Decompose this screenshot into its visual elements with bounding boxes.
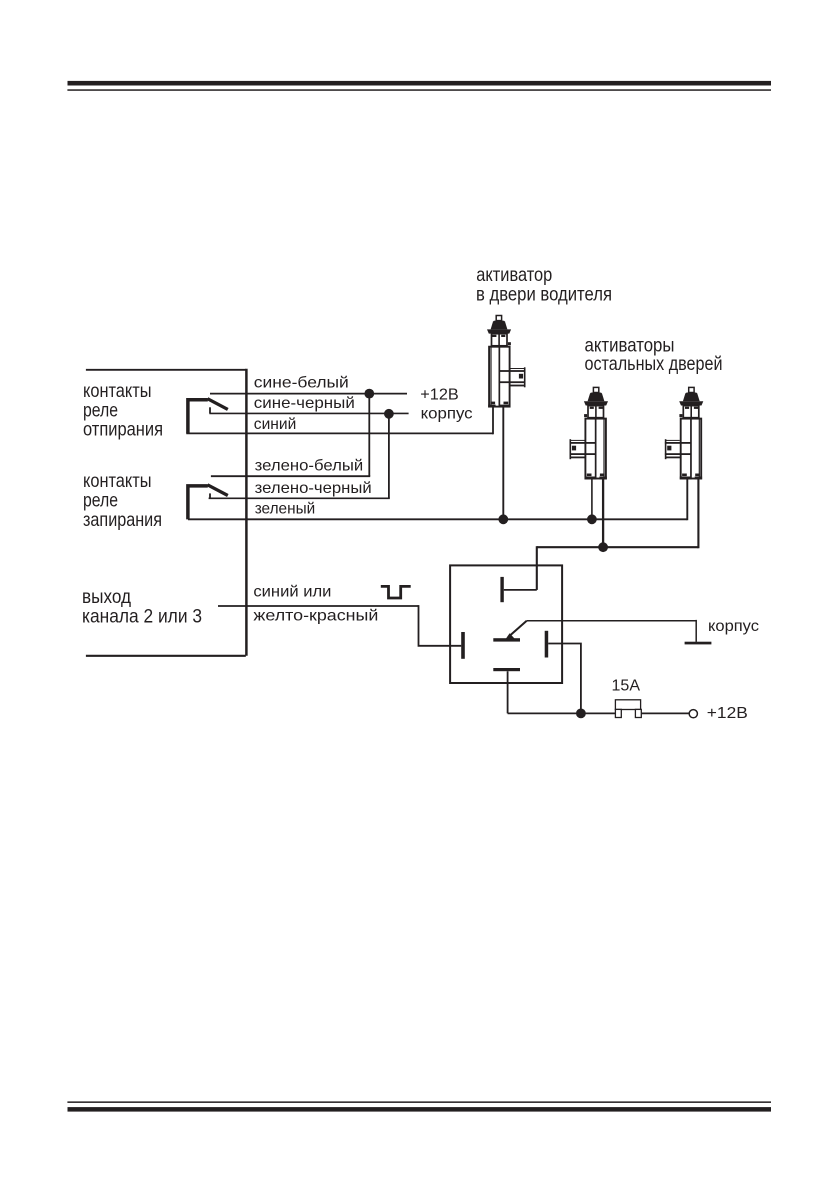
wire bottom pin to fuse line [508, 671, 616, 713]
relay bottom contact bar [493, 668, 520, 671]
middle actuator (mirrored) [570, 387, 609, 479]
svg-text:+12В: +12В [420, 386, 459, 403]
svg-text:сине-белый: сине-белый [254, 374, 349, 391]
wire зеленый bus [188, 518, 687, 520]
driver door actuator [487, 316, 526, 408]
wire driver actuator right terminal [502, 407, 504, 519]
lower bus wire [537, 546, 699, 548]
wire синий [186, 432, 493, 434]
+12V terminal circle [689, 710, 697, 718]
relay movable blade [509, 621, 527, 637]
relay pin 85 plate (left) [461, 632, 465, 659]
svg-text:+12В: +12В [707, 705, 748, 722]
wire синий riser to driver actuator [492, 407, 494, 434]
wire сине-белый [210, 393, 407, 395]
svg-text:корпус: корпус [708, 618, 759, 635]
svg-text:синий или: синий или [253, 584, 331, 601]
wire vertical to зелено-черный [388, 414, 390, 499]
channel output wire синий или желто-красный [218, 605, 419, 607]
svg-text:канала 2 или 3: канала 2 или 3 [82, 605, 202, 627]
drop into relay box top pin [536, 546, 538, 590]
node dot корпус join [384, 409, 394, 419]
page bottom double rule [67, 1101, 771, 1103]
relay pin 30 plate (top) [500, 577, 503, 602]
negative pulse symbol [381, 586, 411, 598]
wire vertical to зелено-белый [368, 394, 370, 477]
svg-text:сине-черный: сине-черный [254, 395, 355, 412]
riser right actuator right terminal [697, 480, 699, 549]
node dot fuse line [576, 709, 586, 719]
wire middle actuator right terminal [602, 480, 604, 548]
wire middle actuator left terminal [591, 480, 593, 520]
svg-text:зелено-белый: зелено-белый [255, 458, 364, 475]
relay pin 86 plate (right) [545, 631, 549, 658]
right actuator (mirrored) [665, 387, 704, 479]
svg-text:15А: 15А [612, 678, 641, 695]
wire сине-черный [209, 412, 408, 414]
svg-text:корпус: корпус [421, 406, 473, 423]
ground bar корпус [685, 642, 712, 645]
svg-text:зеленый: зеленый [255, 501, 316, 518]
wire blade common to ground [527, 620, 697, 642]
svg-text:в двери водителя: в двери водителя [476, 284, 612, 306]
node dot driver/зеленый [498, 514, 508, 524]
wire зелено-белый [211, 475, 370, 477]
relay contact K1 (unlock) [188, 400, 208, 434]
alarm unit box (open left) [86, 369, 246, 371]
riser right actuator left terminal [686, 480, 688, 521]
page top double rule [68, 81, 772, 86]
relay NC contact bar [493, 638, 520, 641]
wire fuse to terminal [641, 712, 690, 714]
relay contact K2 (lock) [188, 486, 208, 520]
svg-text:зелено-черный: зелено-черный [255, 480, 372, 497]
wire right pin down to fuse line [548, 643, 581, 714]
node dot +12V join [364, 389, 374, 399]
node dot middle/lower bus [598, 542, 608, 552]
svg-text:остальных дверей: остальных дверей [585, 353, 723, 375]
svg-text:запирания: запирания [83, 509, 162, 531]
relay box [450, 565, 562, 683]
svg-text:желто-красный: желто-красный [253, 607, 378, 624]
node dot middle/зеленый [587, 514, 597, 524]
svg-text:отпирания: отпирания [83, 419, 163, 441]
wire зелено-черный [209, 497, 390, 499]
svg-text:синий: синий [254, 416, 296, 433]
